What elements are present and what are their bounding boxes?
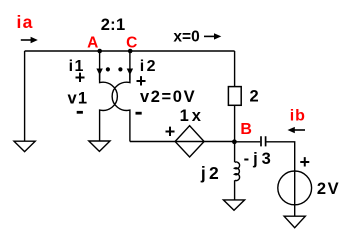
wire node B to capacitor bbox=[235, 141, 261, 143]
svg-text:+: + bbox=[165, 121, 176, 141]
svg-text:j2: j2 bbox=[200, 163, 222, 183]
wire capacitor to source corner bbox=[266, 142, 294, 216]
svg-text:ia: ia bbox=[17, 12, 34, 32]
label minus v1 bbox=[77, 111, 83, 114]
arrow x=0 direction bbox=[204, 35, 215, 37]
arrow i1 current bbox=[96, 69, 102, 76]
arrow i2 current bbox=[127, 69, 133, 76]
ground G4 under source bbox=[284, 216, 305, 228]
ground G1 left bbox=[14, 141, 35, 151]
wire bottom bus to node B bbox=[130, 141, 235, 143]
resistor R 2 body bbox=[228, 87, 241, 106]
wire resistor branch vertical bbox=[234, 51, 236, 142]
svg-text:+: + bbox=[75, 68, 86, 88]
node A bbox=[97, 49, 102, 54]
dependent source E1 diamond bbox=[175, 126, 204, 157]
wire node C down stub bbox=[129, 51, 131, 80]
svg-text:ib: ib bbox=[290, 108, 306, 125]
capacitor -j3 plates bbox=[261, 136, 266, 146]
voltage source V1 2V circle bbox=[278, 171, 312, 205]
wire top bus bbox=[25, 50, 235, 52]
svg-text:-j3: -j3 bbox=[244, 150, 275, 168]
svg-text:1x: 1x bbox=[180, 107, 204, 125]
node C bbox=[128, 49, 133, 54]
svg-text:B: B bbox=[240, 121, 252, 138]
svg-text:+: + bbox=[300, 152, 311, 172]
arrow ia direction bbox=[21, 39, 32, 41]
node B bbox=[232, 139, 237, 144]
svg-text:2:1: 2:1 bbox=[101, 16, 126, 34]
transformer T1 primary winding bbox=[100, 74, 118, 141]
arrow ib direction bbox=[295, 129, 306, 131]
svg-text:v2=0V: v2=0V bbox=[140, 88, 196, 106]
inductor j2 coil bbox=[234, 162, 239, 181]
transformer T1 polarity dot left bbox=[106, 67, 110, 71]
ground G2 under transformer bbox=[89, 141, 110, 151]
svg-text:A: A bbox=[87, 34, 98, 51]
ground G3 under inductor bbox=[223, 200, 244, 210]
svg-text:x=0: x=0 bbox=[173, 29, 199, 46]
label minus v2 bbox=[136, 112, 142, 115]
wire left vertical bbox=[24, 51, 26, 141]
wire node A down stub bbox=[99, 51, 101, 80]
transformer T1 secondary winding bbox=[112, 74, 130, 142]
transformer T1 polarity dot right bbox=[118, 67, 122, 71]
wire inductor branch bbox=[234, 142, 236, 200]
svg-text:v1: v1 bbox=[68, 89, 89, 107]
svg-text:2: 2 bbox=[250, 88, 259, 106]
svg-text:2V: 2V bbox=[317, 180, 340, 198]
svg-text:C: C bbox=[126, 34, 137, 51]
